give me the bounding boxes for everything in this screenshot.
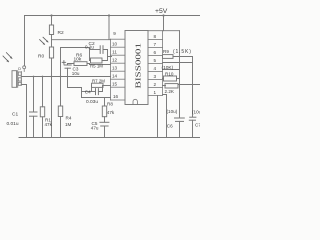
wire pin 16 node down to R8 — [104, 98, 106, 107]
wire IC pin 4 lead — [163, 69, 180, 71]
svg-text:(10K): (10K) — [162, 65, 174, 71]
photoresistor R0 light arrows — [40, 37, 49, 44]
resistor R4 — [58, 106, 62, 117]
wire R7 left stub down to C4 branch — [91, 86, 93, 92]
svg-text:R9: R9 — [163, 49, 169, 54]
svg-text:R8: R8 — [107, 102, 113, 107]
wire divider node to IC pin 10 — [52, 39, 111, 41]
svg-text:47k: 47k — [107, 110, 115, 115]
wire IC pin 16 lead — [82, 97, 111, 99]
wire C5 to ground — [104, 126, 106, 138]
svg-text:2: 2 — [154, 82, 157, 87]
svg-text:BISS0001: BISS0001 — [134, 43, 143, 89]
svg-text:0.03u: 0.03u — [86, 99, 98, 105]
IC U1 right pin cell column — [148, 31, 163, 96]
svg-text:(10u): (10u) — [192, 110, 200, 115]
svg-text:47u: 47u — [91, 125, 99, 130]
wire node B vertical — [89, 50, 91, 61]
wire Vdd top route to C6 — [148, 30, 180, 32]
wire C2 right lead to pin 12 — [103, 50, 111, 57]
wire R4 branch from node A — [61, 48, 90, 107]
wire +5V top rail — [25, 15, 201, 17]
wire sensor ground lead — [21, 85, 26, 138]
svg-text:5: 5 — [154, 58, 157, 63]
wire pin 2 output lead — [163, 85, 166, 87]
capacitor C7 — [189, 117, 196, 120]
svg-text:14: 14 — [112, 73, 118, 78]
wire left rail from +5V to sensor drain — [24, 16, 26, 66]
wire R8 to C5 — [104, 117, 106, 123]
svg-text:8: 8 — [154, 34, 157, 39]
wire R10 right lead — [177, 78, 180, 80]
wire IC pin 15 lead — [103, 85, 111, 87]
svg-text:13: 13 — [112, 65, 118, 70]
wire C4 right lead and stub up — [99, 86, 103, 92]
PIR sensor DP body — [12, 71, 18, 88]
wire IC pin 9 corner from top rail — [108, 16, 110, 40]
svg-text:C1: C1 — [12, 112, 18, 118]
resistor R5 — [91, 58, 103, 63]
wire R0 bottom down to ground — [51, 58, 53, 138]
svg-text:C7: C7 — [195, 123, 200, 128]
svg-text:11: 11 — [112, 49, 117, 54]
wire IC pin 1 lead down to ground — [163, 95, 167, 138]
svg-text:C4: C4 — [85, 90, 91, 95]
op-amp IC U1 BISS0001 body — [125, 31, 148, 105]
wire R2 top stem — [51, 16, 53, 26]
svg-text:10u: 10u — [72, 71, 80, 76]
PIR sensor drain pin circle — [23, 66, 26, 69]
wire from IC right strip bottom to ground — [157, 96, 159, 138]
svg-text:47k: 47k — [45, 122, 53, 127]
node junction dots on rails — [33, 14, 165, 77]
wire R1 branch — [42, 77, 44, 107]
wire R2 to R0 junction — [51, 35, 53, 48]
capacitor C3 plus sign — [62, 61, 66, 65]
svg-text:R7 2M: R7 2M — [92, 79, 105, 84]
wire R5 left lead — [90, 60, 91, 62]
capacitor C6 — [175, 118, 185, 121]
svg-text:15: 15 — [112, 81, 118, 86]
svg-text:7: 7 — [154, 42, 157, 47]
wire C6 to ground — [179, 121, 181, 137]
wire C1 branch — [33, 77, 35, 112]
svg-text:C6: C6 — [167, 123, 173, 128]
wire C7 to ground — [192, 120, 194, 137]
wire C1 lower stem — [33, 116, 35, 137]
capacitor C5 electrolytic — [100, 122, 109, 126]
svg-text:4: 4 — [154, 66, 157, 71]
svg-text:+5V: +5V — [155, 8, 168, 15]
resistor R8 — [102, 106, 106, 117]
wire ground bottom rail — [19, 137, 200, 139]
resistor R9 — [163, 55, 174, 59]
svg-text:(10u): (10u) — [167, 109, 178, 114]
svg-text:R10: R10 — [165, 71, 174, 76]
resistor R11 2.2K — [165, 84, 178, 88]
PIR sensor drain stub — [23, 69, 25, 72]
wire R10 left lead — [163, 78, 164, 80]
svg-text:0.01u: 0.01u — [7, 121, 19, 127]
wire Vdd drop to C6 — [179, 31, 181, 118]
wire R9 output corner — [173, 57, 193, 118]
resistor R1 — [40, 107, 44, 117]
wire C4 left branch — [82, 91, 96, 93]
wire R4 lower stem — [60, 117, 62, 138]
svg-text:10k: 10k — [74, 56, 82, 62]
svg-text:R5 1M: R5 1M — [90, 64, 103, 69]
IC U1 bottom notch — [133, 99, 137, 104]
svg-text:0.1u: 0.1u — [85, 45, 94, 50]
svg-text:12: 12 — [112, 57, 118, 62]
wire C3 plus node stub — [68, 64, 75, 66]
resistor R0 photoresistor — [49, 47, 53, 58]
svg-text:2.2K: 2.2K — [165, 89, 175, 94]
IC U1 left pin cell column — [111, 39, 126, 100]
wire C2 left lead — [90, 49, 100, 51]
svg-text:1: 1 — [154, 90, 157, 95]
wire IC pin 5 lead — [163, 62, 193, 64]
svg-text:R2: R2 — [58, 30, 64, 36]
svg-text:3: 3 — [154, 74, 157, 79]
wire R1 lower stem — [42, 117, 44, 138]
wire +5V drop to IC top right — [163, 16, 165, 31]
svg-text:10: 10 — [112, 41, 118, 46]
capacitor C2 — [100, 46, 103, 54]
resistor R7 — [92, 83, 104, 87]
wire R6 right lead to node B — [87, 64, 90, 65]
svg-text:16: 16 — [113, 94, 119, 99]
svg-text:(1.5K): (1.5K) — [173, 49, 192, 55]
svg-text:9: 9 — [113, 31, 116, 36]
svg-text:D: D — [18, 67, 21, 71]
wire sensor source lead to IC pin 14 — [21, 76, 110, 78]
capacitor C1 — [30, 112, 38, 116]
resistor R2 — [49, 25, 53, 35]
resistor R10 — [164, 76, 177, 81]
capacitor C4 — [96, 89, 99, 95]
wire IC pin 13 lead — [90, 64, 111, 66]
wire C3 stem down — [68, 68, 82, 97]
svg-text:1M: 1M — [65, 122, 72, 127]
PIR sensor dual element comb — [18, 72, 21, 86]
svg-text:6: 6 — [154, 50, 157, 55]
wire R11 right lead to right edge — [178, 84, 200, 86]
svg-text:R0: R0 — [38, 54, 44, 60]
capacitor C3 electrolytic — [64, 65, 71, 68]
resistor R6 — [74, 62, 87, 66]
PIR sensor infrared rays — [3, 53, 12, 62]
svg-text:R4: R4 — [66, 116, 72, 121]
wire R5 right lead — [102, 57, 108, 61]
